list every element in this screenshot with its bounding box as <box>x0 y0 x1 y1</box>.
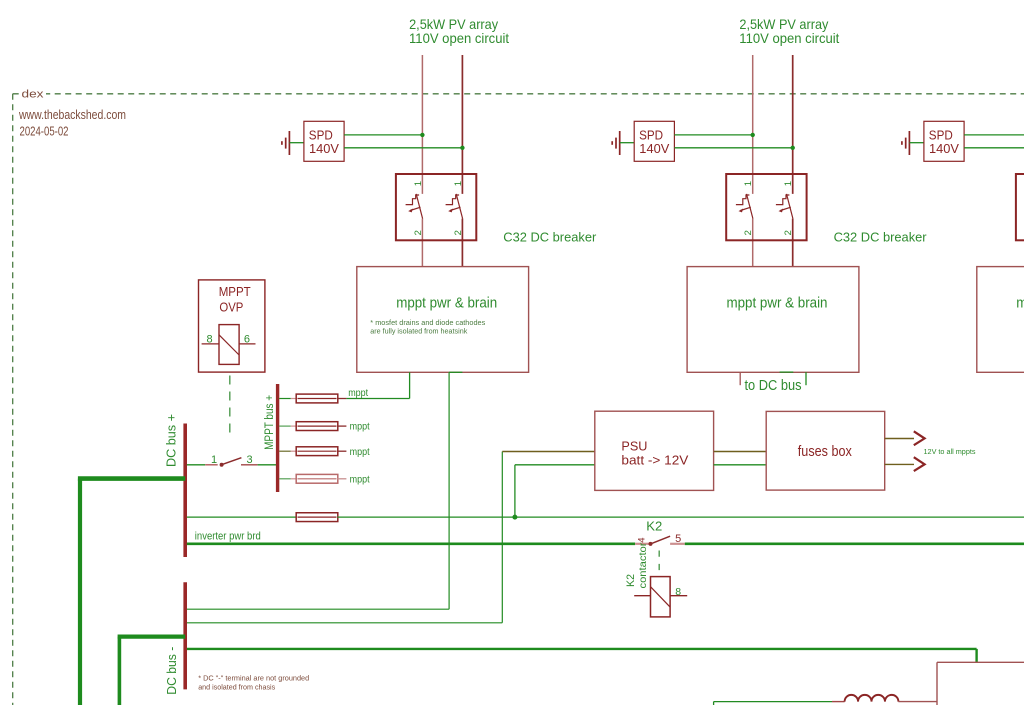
svg-text:SPD: SPD <box>309 128 333 142</box>
svg-text:C32 DC breaker: C32 DC breaker <box>834 230 928 245</box>
svg-text:DC bus -: DC bus - <box>164 647 179 695</box>
fuse F2 <box>296 422 338 431</box>
fuses box <box>766 411 885 490</box>
relay coil K2 box <box>651 577 671 617</box>
wire SPD to PV- col1 <box>344 147 462 149</box>
junction dot PV+ col1 <box>420 133 424 137</box>
svg-text:and isolated from chasis: and isolated from chasis <box>198 682 275 691</box>
fuse F3 <box>296 447 338 456</box>
fuse F4 <box>296 474 338 483</box>
output wire 12V upper <box>885 438 914 440</box>
junction dot PV+ col2 <box>751 133 755 137</box>
wire PSU to fuses box brown <box>714 451 767 453</box>
svg-text:SPD: SPD <box>639 128 663 142</box>
wire PV- vertical col1 <box>461 55 463 194</box>
svg-text:C32 DC breaker: C32 DC breaker <box>503 230 597 245</box>
inverter pwr wire right of K2 <box>685 542 1024 545</box>
switch S1 wire from DC bus <box>187 464 205 466</box>
sheet border dashed left <box>12 94 14 705</box>
wire switch to MPPT bus <box>258 464 277 466</box>
svg-text:2: 2 <box>453 230 464 235</box>
svg-text:2: 2 <box>413 230 424 235</box>
svg-text:batt -> 12V: batt -> 12V <box>621 453 688 468</box>
breaker CB1 box <box>396 174 476 240</box>
svg-text:mppt: mppt <box>350 474 370 485</box>
breaker CB3 box <box>1016 174 1024 240</box>
svg-text:4: 4 <box>637 538 648 543</box>
wire SPD to PV+ col1 <box>344 134 422 136</box>
svg-text:140V: 140V <box>929 142 960 156</box>
breaker pole symbol at x=752.7 <box>736 194 753 219</box>
SPD arrester U2 box <box>634 121 674 161</box>
svg-text:1: 1 <box>211 454 217 466</box>
svg-text:are fully isolated from heatsi: are fully isolated from heatsink <box>370 327 467 336</box>
fuse F5 <box>296 513 338 522</box>
svg-text:dex: dex <box>22 89 45 101</box>
svg-text:2024-05-02: 2024-05-02 <box>20 124 69 139</box>
svg-text:K2: K2 <box>625 574 637 587</box>
PSU box <box>595 411 714 490</box>
junction dot PV- col1 <box>460 146 464 150</box>
svg-text:1: 1 <box>743 181 754 186</box>
wire DC bus to fuse F5 line <box>187 516 296 518</box>
inductor L1 <box>845 695 899 702</box>
svg-text:SPD: SPD <box>929 128 953 142</box>
dashed link OVP to switch <box>229 376 231 440</box>
wire PV- vertical col2 <box>792 55 794 194</box>
SPD arrester U1 box <box>304 121 344 161</box>
svg-text:140V: 140V <box>309 142 340 156</box>
wire brown to PSU input <box>502 451 595 453</box>
wire PV+ vertical col1 <box>421 55 423 194</box>
wire green to PSU input <box>515 464 595 466</box>
wire MPPT bus to fuse F1 <box>279 398 291 400</box>
arrow head lower <box>914 457 925 471</box>
svg-text:mppt pwr & brain: mppt pwr & brain <box>727 295 828 311</box>
wire to inductor green <box>714 701 832 703</box>
svg-text:to DC bus: to DC bus <box>745 378 802 394</box>
wire PSU brown feed corner to DC bus minus <box>501 452 503 623</box>
svg-text:1: 1 <box>783 181 794 186</box>
svg-text:2: 2 <box>743 230 754 235</box>
wire PV+ vertical col2 <box>752 55 754 194</box>
wire stub box1 bottom edge <box>449 371 462 373</box>
breaker pole symbol at x=792.7 <box>776 194 793 219</box>
svg-text:mppt: mppt <box>350 422 370 433</box>
K2 coil pin left <box>634 595 650 597</box>
inverter pwr wire left of K2 <box>187 542 635 545</box>
switch S1 pole dot <box>220 463 224 467</box>
battery+ thick bus left <box>78 479 82 705</box>
wire fuse F5 to right <box>337 516 1024 518</box>
wire stub to DC bus right <box>805 372 807 385</box>
svg-text:110V open circuit: 110V open circuit <box>739 31 839 46</box>
dashed link K2 coil to contact <box>658 551 660 573</box>
ground symbol col3 <box>908 131 910 155</box>
wire ground to SPD col1 <box>289 142 304 144</box>
K2 contact stub right <box>670 543 685 545</box>
svg-text:140V: 140V <box>639 142 670 156</box>
svg-text:2: 2 <box>783 230 794 235</box>
ground symbol col2 <box>619 131 621 155</box>
svg-text:MPPT: MPPT <box>219 285 251 299</box>
wire ground to SPD col3 <box>909 142 924 144</box>
switch S1 blade <box>222 458 242 465</box>
svg-text:6: 6 <box>244 334 250 346</box>
stub fuse F4 right <box>337 478 346 480</box>
wire stub to DC bus left <box>739 372 741 385</box>
svg-text:www.thebackshed.com: www.thebackshed.com <box>18 107 126 122</box>
mppt pwr &amp; brain box col3 <box>977 267 1024 373</box>
mppt pwr &amp; brain box col2 <box>687 267 859 373</box>
svg-text:mppt: mppt <box>348 388 368 399</box>
svg-text:8: 8 <box>206 334 212 346</box>
wire MPPT bus to fuse F3 <box>279 450 291 452</box>
svg-text:DC bus +: DC bus + <box>164 414 179 467</box>
pin 8 OVP <box>202 343 219 345</box>
K2 contact stub left <box>635 543 649 545</box>
stub fuse F2 right <box>337 425 346 427</box>
svg-text:mppt: mppt <box>350 447 370 458</box>
output wire 12V lower <box>885 463 914 465</box>
breaker CB2 box <box>726 174 806 240</box>
DC bus + bar <box>183 424 187 558</box>
wire PSU to fuses box green <box>714 464 767 466</box>
breaker pole symbol at x=462.4 <box>446 194 463 219</box>
wire SPD to PV+ col2 <box>674 134 752 136</box>
ground symbol col1 <box>288 131 290 155</box>
wire red stub to inductor <box>832 701 845 703</box>
MPPT OVP box <box>199 280 265 372</box>
wire inductor to inverter box <box>898 701 937 703</box>
K2 contact blade <box>651 536 671 544</box>
wire SPD to PV- col2 <box>674 147 792 149</box>
K2 contact pole dot <box>649 542 653 546</box>
svg-text:inverter pwr brd: inverter pwr brd <box>195 530 261 542</box>
junction dot PSU feed <box>512 515 517 520</box>
switch S1 stub left <box>205 464 218 466</box>
stub fuse F3 right <box>337 450 346 452</box>
svg-text:1: 1 <box>453 181 464 186</box>
K2 coil pin 8 right <box>670 595 687 597</box>
battery- thick bus left <box>118 637 122 705</box>
stub fuse F1 right <box>337 398 346 400</box>
DC bus - bar <box>183 582 187 689</box>
DC bus - to inverter thick wire <box>187 648 977 650</box>
svg-text:8: 8 <box>675 586 681 598</box>
breaker pole symbol at x=422.4 <box>406 194 423 219</box>
wire SPD to PV+ col3 <box>964 134 1024 136</box>
sheet border dashed top <box>13 93 1024 95</box>
svg-text:12V to all mppts: 12V to all mppts <box>924 447 976 456</box>
SPD arrester U3 box <box>924 121 964 161</box>
svg-text:mppt pwr & brain: mppt pwr & brain <box>1016 295 1024 311</box>
arrow head upper <box>914 431 925 445</box>
wire SPD to PV- col3 <box>964 147 1024 149</box>
wire ground to SPD col2 <box>620 142 635 144</box>
svg-text:fuses box: fuses box <box>798 444 852 460</box>
svg-text:3: 3 <box>246 454 252 466</box>
sheet name dex <box>20 88 46 99</box>
svg-text:PSU: PSU <box>621 439 647 454</box>
svg-text:OVP: OVP <box>219 301 243 315</box>
svg-text:contactor: contactor <box>637 542 649 589</box>
wire fuse F1 to mppt box1 <box>346 398 409 400</box>
svg-text:mppt pwr & brain: mppt pwr & brain <box>396 295 497 311</box>
wire mppt box1 to DC bus minus <box>448 372 450 609</box>
inverter box corner lines <box>937 661 1024 663</box>
fuse F1 <box>296 394 338 403</box>
wire MPPT bus to fuse F2 <box>279 425 291 427</box>
switch S1 stub to MPPT bus <box>241 464 258 466</box>
svg-text:K2: K2 <box>646 518 662 533</box>
wire MPPT bus to fuse F4 <box>279 478 291 480</box>
pin 6 OVP <box>239 343 255 345</box>
MPPT bus + bar <box>276 384 279 492</box>
relay coil K1 inside OVP <box>219 325 239 365</box>
svg-text:* DC "-" terminal are not grou: * DC "-" terminal are not grounded <box>198 674 309 683</box>
mppt pwr &amp; brain box col1 <box>357 267 529 373</box>
wire stub box2 bottom edge <box>780 371 794 373</box>
svg-text:110V open circuit: 110V open circuit <box>409 31 509 46</box>
junction dot PV- col2 <box>791 146 795 150</box>
svg-text:MPPT bus +: MPPT bus + <box>262 395 276 450</box>
svg-text:1: 1 <box>413 181 424 186</box>
